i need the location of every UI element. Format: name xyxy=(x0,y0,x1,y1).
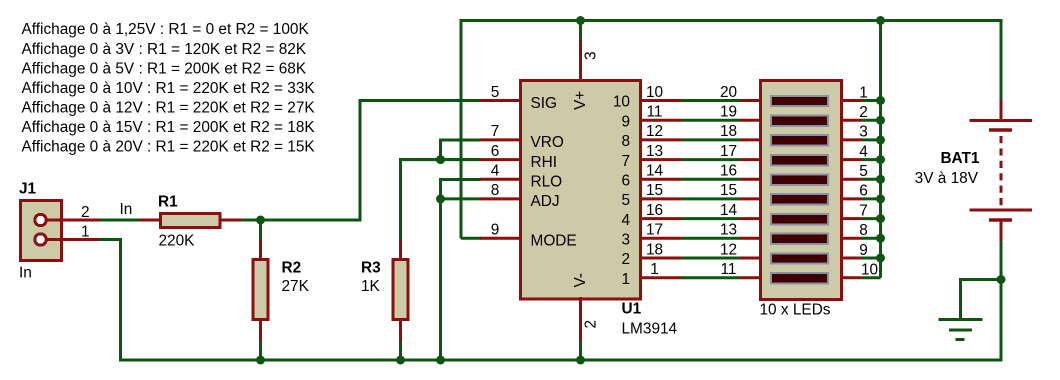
svg-text:R3: R3 xyxy=(361,260,381,277)
svg-text:V+: V+ xyxy=(572,91,589,110)
svg-text:J1: J1 xyxy=(19,181,37,198)
wire U1 to LED row 7 xyxy=(681,217,740,220)
svg-text:Affichage 0 à 12V : R1 = 220K: Affichage 0 à 12V : R1 = 220K et R2 = 27… xyxy=(22,99,316,116)
wire LED anode row 5 xyxy=(862,178,881,181)
svg-text:7: 7 xyxy=(859,202,868,219)
svg-text:Affichage 0 à 1,25V : R1 = 0 e: Affichage 0 à 1,25V : R1 = 0 et R2 = 100… xyxy=(22,21,310,38)
R2 bottom pin xyxy=(259,318,262,341)
svg-text:7: 7 xyxy=(621,153,630,170)
BAT1 plate long 1 xyxy=(970,119,1033,122)
wire ADJ to ground rail xyxy=(439,199,442,360)
junction V1-rail xyxy=(576,356,585,365)
svg-text:5: 5 xyxy=(859,163,868,180)
U1 output pin row 8 stub xyxy=(639,237,681,240)
BAT1 plate long 2 xyxy=(970,209,1033,212)
svg-text:BAT1: BAT1 xyxy=(940,150,979,167)
LED pin 19 stub xyxy=(740,119,762,122)
resistor R3 body xyxy=(393,260,408,320)
U1 output pin row 6 stub xyxy=(639,197,681,200)
svg-text:16: 16 xyxy=(720,163,737,180)
U1 pin 7 (VRO) stub xyxy=(480,138,522,141)
U1 output pin row 2 stub xyxy=(639,119,681,122)
svg-text:15: 15 xyxy=(646,182,663,199)
svg-text:9: 9 xyxy=(491,222,500,239)
svg-text:12: 12 xyxy=(646,123,663,140)
LED pin 13 stub xyxy=(740,237,762,240)
wire ADJ stub xyxy=(441,197,482,200)
junction battery-ground branch xyxy=(997,275,1006,284)
svg-text:6: 6 xyxy=(491,143,500,160)
wire R2 to ground rail xyxy=(259,341,262,360)
wire U1 to LED row 5 xyxy=(681,178,740,181)
svg-text:10: 10 xyxy=(646,84,663,101)
LED anode pin row 4 stub xyxy=(840,158,862,161)
svg-text:3: 3 xyxy=(583,51,600,60)
wire U1 to LED row 9 xyxy=(681,257,740,260)
LED pin 17 stub xyxy=(740,158,762,161)
svg-text:4: 4 xyxy=(491,163,500,180)
ground bar 1 xyxy=(939,318,983,321)
svg-text:18: 18 xyxy=(646,241,663,258)
svg-text:5: 5 xyxy=(621,192,630,209)
svg-text:1: 1 xyxy=(650,261,659,278)
svg-text:6: 6 xyxy=(621,173,630,190)
U1 pin 3 (V+) stub xyxy=(579,40,582,82)
svg-text:14: 14 xyxy=(720,202,738,219)
LED anode pin row 10 stub xyxy=(840,276,862,279)
BAT1 top pin xyxy=(1000,99,1003,120)
U1 pin 4 (RLO) stub xyxy=(480,178,522,181)
wire U1 to LED row 2 xyxy=(681,119,740,122)
svg-text:27K: 27K xyxy=(282,278,310,295)
connector J1 body xyxy=(21,201,62,261)
svg-text:4: 4 xyxy=(859,143,868,160)
wire node to R2 xyxy=(259,220,262,242)
svg-text:17: 17 xyxy=(646,222,663,239)
LED anode pin row 5 stub xyxy=(840,178,862,181)
svg-text:10: 10 xyxy=(861,262,878,279)
wire LED anode row 10 xyxy=(862,276,881,279)
J1 pin 2 stub xyxy=(46,219,100,222)
svg-text:2: 2 xyxy=(583,320,600,329)
wire LED anode row 3 xyxy=(862,138,881,141)
wire J1.2 to R1 xyxy=(100,219,141,222)
LED segment 10 xyxy=(771,273,828,283)
wire node to SIG riser xyxy=(261,101,482,221)
LED pin 12 stub xyxy=(740,257,762,260)
U1 output pin row 1 stub xyxy=(639,99,681,102)
BAT1 bottom pin xyxy=(1000,220,1003,241)
svg-text:5: 5 xyxy=(491,84,500,101)
U1 pin 5 (SIG) stub xyxy=(480,99,522,102)
U1 output pin row 3 stub xyxy=(639,138,681,141)
junction anode row 6 xyxy=(876,194,885,203)
LED pin 20 stub xyxy=(740,99,762,102)
LED segment 8 xyxy=(771,234,828,244)
junction anode row 1 xyxy=(876,96,885,105)
LED anode pin row 7 stub xyxy=(840,217,862,220)
svg-text:18: 18 xyxy=(720,123,737,140)
svg-text:11: 11 xyxy=(721,261,737,278)
svg-text:12: 12 xyxy=(720,241,737,258)
svg-text:Affichage 0 à 3V : R1 = 120K e: Affichage 0 à 3V : R1 = 120K et R2 = 82K xyxy=(22,41,307,58)
R2 top pin xyxy=(259,240,262,261)
U1 pin 9 (MODE) stub xyxy=(480,237,522,240)
svg-text:14: 14 xyxy=(646,163,664,180)
wire LED anode row 8 xyxy=(862,237,881,240)
wire R3 to ground rail xyxy=(399,341,402,360)
svg-text:6: 6 xyxy=(859,183,868,200)
svg-text:8: 8 xyxy=(621,133,630,150)
LED pin 15 stub xyxy=(740,197,762,200)
svg-text:Affichage 0 à 10V : R1 = 220K: Affichage 0 à 10V : R1 = 220K et R2 = 33… xyxy=(22,80,316,97)
wire LED anode row 6 xyxy=(862,197,881,200)
wire top V+ bus xyxy=(461,21,1001,239)
R1 left pin xyxy=(139,219,162,222)
svg-text:LM3914: LM3914 xyxy=(622,321,678,338)
LED pin 18 stub xyxy=(740,138,762,141)
svg-text:17: 17 xyxy=(720,143,737,160)
junction anode row 4 xyxy=(876,155,885,164)
wire RHI stub xyxy=(401,158,482,161)
svg-text:220K: 220K xyxy=(159,233,196,250)
LED pin 14 stub xyxy=(740,217,762,220)
wire battery bottom xyxy=(1000,241,1003,360)
wire R1 to node xyxy=(241,219,261,222)
svg-text:10: 10 xyxy=(613,94,630,111)
svg-text:4: 4 xyxy=(621,212,630,229)
LED anode pin row 8 stub xyxy=(840,237,862,240)
svg-text:11: 11 xyxy=(647,104,663,121)
wire LED anode row 2 xyxy=(862,119,881,122)
svg-text:3V à 18V: 3V à 18V xyxy=(915,170,979,187)
R3 top pin xyxy=(399,240,402,261)
junction anode row 9 xyxy=(876,254,885,263)
LED anode pin row 3 stub xyxy=(840,138,862,141)
svg-text:1: 1 xyxy=(81,224,90,241)
wire LED anode row 1 xyxy=(862,99,881,102)
U1 output pin row 5 stub xyxy=(639,178,681,181)
junction RLO-ADJ xyxy=(436,194,445,203)
U1 output pin row 4 stub xyxy=(639,158,681,161)
svg-text:RLO: RLO xyxy=(531,174,563,191)
svg-text:20: 20 xyxy=(720,84,737,101)
junction anode row 5 xyxy=(876,175,885,184)
svg-text:2: 2 xyxy=(859,104,868,121)
LED anode pin row 1 stub xyxy=(840,99,862,102)
svg-text:3: 3 xyxy=(621,232,630,249)
wire U1 to LED row 3 xyxy=(681,138,740,141)
svg-text:R1: R1 xyxy=(158,194,178,211)
junction anode row 8 xyxy=(876,234,885,243)
svg-text:8: 8 xyxy=(491,182,500,199)
junction LED anode bus xyxy=(876,16,885,25)
svg-text:16: 16 xyxy=(646,202,663,219)
wire RLO to ADJ xyxy=(441,179,482,199)
junction anode row 7 xyxy=(876,214,885,223)
U1 body xyxy=(521,81,641,300)
wire U1 to LED row 4 xyxy=(681,158,740,161)
wire RHI to R3 xyxy=(401,160,482,242)
svg-text:Affichage 0 à 5V : R1 = 200K e: Affichage 0 à 5V : R1 = 200K et R2 = 68K xyxy=(22,60,307,77)
R1 right pin xyxy=(219,219,241,222)
svg-text:SIG: SIG xyxy=(531,95,558,112)
junction anode row 3 xyxy=(876,135,885,144)
BAT1 plate short 2 xyxy=(989,218,1012,222)
wire U1 to LED row 6 xyxy=(681,197,740,200)
svg-text:VRO: VRO xyxy=(531,134,564,151)
BAT1 dashed body xyxy=(1000,136,1003,206)
LED segment 1 xyxy=(771,96,828,106)
wire battery top xyxy=(1000,19,1003,100)
ground bar 3 xyxy=(956,338,965,341)
junction ADJ-rail xyxy=(436,356,445,365)
svg-text:2: 2 xyxy=(621,251,630,268)
LED segment 9 xyxy=(771,253,828,263)
U1 pin 2 (V-) stub xyxy=(579,297,582,341)
LED anode pin row 6 stub xyxy=(840,197,862,200)
svg-text:13: 13 xyxy=(720,222,737,239)
wire ground rail xyxy=(119,359,1003,362)
junction R2-rail xyxy=(256,356,265,365)
wire V- to rail xyxy=(579,341,582,360)
R3 bottom pin xyxy=(399,318,402,341)
svg-text:1: 1 xyxy=(621,271,630,288)
LED anode pin row 2 stub xyxy=(840,119,862,122)
LED pin 11 stub xyxy=(740,276,762,279)
junction VRO-RHI xyxy=(436,155,445,164)
wire U1 to LED row 1 xyxy=(681,99,740,102)
wire LED anode bus xyxy=(879,21,882,278)
U1 output pin row 9 stub xyxy=(639,257,681,260)
svg-text:3: 3 xyxy=(859,124,868,141)
wire LED anode row 9 xyxy=(862,257,881,260)
resistor R2 body xyxy=(253,260,268,320)
svg-text:15: 15 xyxy=(720,182,737,199)
svg-text:V-: V- xyxy=(572,273,589,288)
wire J1.1 corner xyxy=(100,240,121,361)
LED segment 5 xyxy=(771,175,828,185)
U1 output pin row 7 stub xyxy=(639,217,681,220)
connector J1 pin 1 pad xyxy=(35,234,46,245)
LED pin 16 stub xyxy=(740,178,762,181)
U1 pin 8 (ADJ) stub xyxy=(480,197,522,200)
svg-text:RHI: RHI xyxy=(531,154,558,171)
svg-text:Affichage 0 à 20V : R1 = 220K: Affichage 0 à 20V : R1 = 220K et R2 = 15… xyxy=(22,139,316,156)
svg-text:In: In xyxy=(120,201,133,218)
wire V+ vert xyxy=(579,20,582,41)
svg-text:2: 2 xyxy=(81,204,90,221)
svg-text:1: 1 xyxy=(859,84,868,101)
svg-text:MODE: MODE xyxy=(531,233,577,250)
junction V+ pin3 xyxy=(576,16,585,25)
wire LED anode row 7 xyxy=(862,217,881,220)
resistor R1 body xyxy=(160,213,220,227)
LED segment 7 xyxy=(771,214,828,224)
wire VRO to RHI xyxy=(441,140,482,160)
wire U1 to LED row 8 xyxy=(681,237,740,240)
wire LED anode row 4 xyxy=(862,158,881,161)
svg-text:R2: R2 xyxy=(282,260,302,277)
connector J1 pin 2 pad xyxy=(35,214,46,225)
svg-text:Affichage 0 à 15V : R1 = 200K: Affichage 0 à 15V : R1 = 200K et R2 = 18… xyxy=(22,119,316,136)
LED segment 3 xyxy=(771,135,828,145)
LED segment 2 xyxy=(771,116,828,126)
svg-text:7: 7 xyxy=(491,123,500,140)
svg-text:10 x LEDs: 10 x LEDs xyxy=(760,302,831,319)
BAT1 plate short 1 xyxy=(989,128,1012,132)
svg-text:ADJ: ADJ xyxy=(531,193,560,210)
svg-text:13: 13 xyxy=(646,143,663,160)
ground bar 2 xyxy=(949,329,972,332)
junction node R1-R2 xyxy=(256,216,265,225)
svg-text:In: In xyxy=(19,265,32,282)
LED segment 6 xyxy=(771,194,828,204)
LED segment 4 xyxy=(771,155,828,165)
svg-text:19: 19 xyxy=(720,104,737,121)
wire ground branch xyxy=(961,280,1002,319)
svg-text:8: 8 xyxy=(859,222,868,239)
U1 pin 6 (RHI) stub xyxy=(480,158,522,161)
junction R3-rail xyxy=(396,356,405,365)
svg-text:9: 9 xyxy=(859,242,868,259)
svg-text:9: 9 xyxy=(621,113,630,130)
svg-text:1K: 1K xyxy=(361,278,381,295)
svg-text:U1: U1 xyxy=(622,301,642,318)
J1 pin 1 stub xyxy=(46,238,100,241)
wire U1 to LED row 10 xyxy=(681,276,740,279)
LED bargraph body xyxy=(761,81,842,300)
U1 output pin row 10 stub xyxy=(639,276,681,279)
LED anode pin row 9 stub xyxy=(840,257,862,260)
wire MODE stub xyxy=(461,237,481,240)
junction anode row 2 xyxy=(876,116,885,125)
